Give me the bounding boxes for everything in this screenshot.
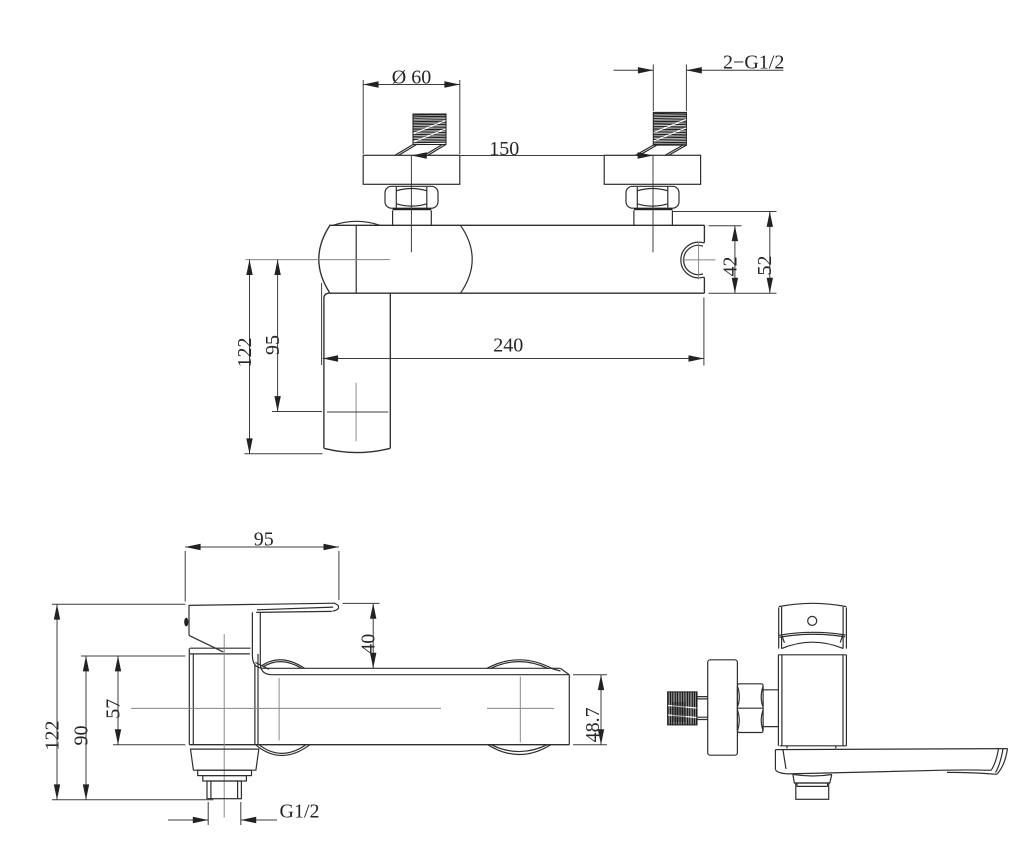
side view: union-to-body connector — [763, 690, 778, 727]
front view: right connection centerline — [519, 677, 521, 743]
top view: spout body — [324, 293, 390, 452]
svg-text:90: 90 — [70, 726, 92, 746]
top view: left connector stub below nut — [393, 210, 432, 225]
front view: temperature indicator dot — [184, 618, 188, 627]
svg-text:Ø 60: Ø 60 — [392, 67, 431, 89]
front view: outlet collar upper — [198, 770, 252, 775]
top view: cylinder horizontal centerline — [246, 259, 391, 261]
dimension 150 — [411, 138, 653, 160]
dimension 52 — [672, 212, 777, 294]
top view: left pipe centerline — [410, 156, 412, 253]
top view: left pipe slanted neck — [395, 145, 446, 156]
side view: wall escutcheon disc — [708, 660, 738, 755]
side view: valve body — [778, 655, 846, 749]
front view: spout bar — [189, 668, 569, 744]
side view: outlet nipple — [796, 783, 829, 799]
side view: outlet flange arc under blade — [793, 774, 832, 776]
front view: left mount boss bottom crescent — [256, 745, 311, 756]
top view: left wall flange — [363, 155, 460, 184]
dimension 40 — [343, 603, 380, 668]
dimension 95 (top view) — [262, 260, 388, 412]
top view: shower hose C-notch outer arc — [681, 242, 705, 278]
dimension 48.7 — [573, 675, 607, 745]
top view: left nut shadow line — [393, 208, 432, 210]
top view: shower hose C-notch inner arc — [684, 245, 703, 274]
front view: bar horizontal centerline — [131, 707, 554, 709]
top view: valve cylinder left arc — [319, 225, 330, 293]
top view: left threaded inlet pipe — [413, 114, 446, 145]
top view: lever handle arc above body — [333, 221, 380, 225]
side view: pipe lines between thread and disc — [697, 697, 708, 720]
side view: dome arc — [782, 642, 844, 648]
front view: outlet threaded nipple — [207, 781, 241, 799]
front view: left mount boss top crescent — [262, 660, 305, 669]
front view: outlet collar lower — [203, 776, 247, 781]
dimension 122 (top view) — [234, 260, 323, 454]
top view: spout vertical centerline — [355, 383, 357, 442]
svg-text:122: 122 — [41, 721, 63, 751]
top view: valve cylinder right arc — [461, 225, 473, 293]
front view: handle skirt diagonal — [189, 635, 223, 652]
top view: notch horizontal centerline — [682, 259, 715, 261]
svg-text:48.7: 48.7 — [582, 707, 604, 742]
top view: right pipe slanted neck — [636, 145, 687, 155]
dimension 90 — [70, 656, 185, 800]
dimension 57 — [102, 656, 185, 745]
top view: right threaded inlet pipe — [653, 112, 686, 145]
front view: handle neck — [252, 612, 271, 674]
top view: right nut shadow line — [634, 208, 673, 210]
front view: valve body centerline — [223, 634, 225, 818]
side view: handle cap hole — [808, 616, 817, 625]
side view: outlet flange — [793, 775, 832, 784]
front view: left connection centerline — [278, 678, 280, 741]
front view: lower hex nut — [191, 749, 259, 770]
svg-text:150: 150 — [489, 138, 519, 160]
dimension 240 — [322, 283, 704, 366]
top view: notch vertical centerline — [698, 242, 700, 280]
dimension 122 (front view) — [41, 604, 213, 800]
dimension 2-G1/2 — [614, 52, 785, 111]
front view: right mount boss bottom crescent — [488, 745, 551, 755]
top view: left hex nut — [385, 186, 438, 208]
dimension Ø60 — [363, 67, 460, 155]
top view: right hex nut — [626, 186, 679, 208]
svg-text:42: 42 — [719, 257, 741, 277]
side view: handle cap — [779, 603, 847, 648]
top view: right connector stub below nut — [634, 210, 673, 225]
top view: right pipe centerline — [652, 156, 654, 253]
svg-text:95: 95 — [262, 335, 284, 355]
dimension 42 — [709, 226, 777, 294]
svg-text:122: 122 — [234, 338, 256, 368]
side view: spout blade — [775, 749, 1007, 775]
front view: right mount boss top crescent — [487, 660, 561, 671]
svg-text:95: 95 — [254, 529, 274, 551]
side view: eccentric hex union — [737, 684, 763, 733]
svg-text:240: 240 — [493, 335, 523, 357]
side view: threaded wall pipe — [668, 692, 697, 725]
svg-text:G1/2: G1/2 — [280, 801, 320, 823]
dimension 95 (front view) — [185, 529, 339, 602]
svg-text:57: 57 — [102, 699, 124, 719]
svg-text:40: 40 — [358, 634, 380, 654]
dimension G1/2 — [168, 801, 320, 826]
front view: lever paddle — [189, 603, 339, 635]
top view: right wall flange — [604, 155, 700, 184]
svg-text:2−G1/2: 2−G1/2 — [723, 52, 784, 74]
side view: handle cap rim arcs — [779, 632, 846, 642]
front view: valve body block — [189, 648, 258, 745]
top view: handle base edge line — [355, 225, 357, 293]
top view: main body bar outline — [329, 225, 704, 293]
svg-text:52: 52 — [754, 256, 776, 276]
